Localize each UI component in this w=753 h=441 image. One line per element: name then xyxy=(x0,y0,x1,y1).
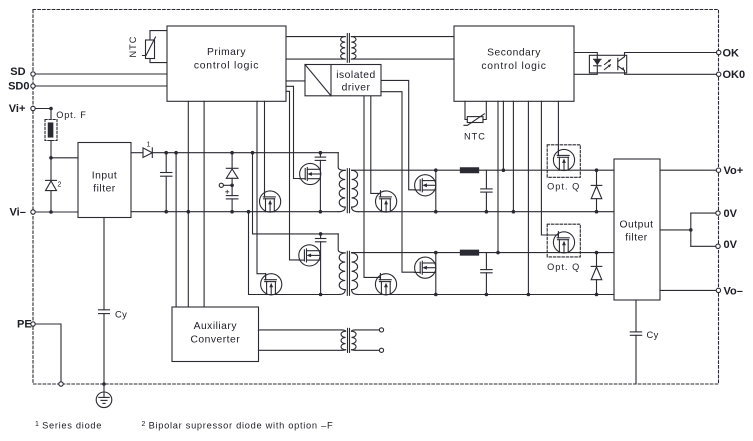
svg-text:Vo–: Vo– xyxy=(724,285,743,297)
transformer T2 secondary xyxy=(352,253,359,295)
svg-text:NTC: NTC xyxy=(464,132,486,142)
svg-text:isolated: isolated xyxy=(336,70,376,81)
svg-text:control logic: control logic xyxy=(481,61,546,72)
capacitor Cy input xyxy=(99,218,128,393)
option box Opt. Q upper xyxy=(547,145,580,192)
thermistor NTC primary xyxy=(128,31,167,63)
terminal Vi+ xyxy=(31,106,51,110)
terminal SD xyxy=(31,72,167,76)
thermistor NTC secondary xyxy=(464,101,486,141)
wire output Vo+ xyxy=(660,168,721,172)
wire gate drive Q1 xyxy=(286,86,300,178)
wire gate drive Q4 xyxy=(257,101,266,279)
transformer T2 primary xyxy=(338,234,345,295)
svg-text:Input: Input xyxy=(92,170,117,181)
transformer T1 primary xyxy=(338,153,345,212)
transistor Q1 xyxy=(299,163,320,184)
svg-text:driver: driver xyxy=(342,82,371,93)
svg-text:2: 2 xyxy=(58,182,62,189)
svg-text:filter: filter xyxy=(93,184,116,195)
junction dots lower bridge rails xyxy=(319,232,323,296)
wire secondary rail lower return xyxy=(359,294,614,296)
wire isolated driver output 2 xyxy=(371,96,381,197)
transformer T2 core xyxy=(347,251,349,295)
earth ground symbol xyxy=(96,392,112,408)
wire secondary rail upper return xyxy=(359,211,614,213)
svg-text:0V: 0V xyxy=(724,208,738,220)
wire aux feed 3 xyxy=(203,101,205,307)
diode D3 clamp xyxy=(226,153,238,186)
svg-text:Cy: Cy xyxy=(647,329,659,340)
wire Q8 drain source link xyxy=(435,253,437,295)
wire Vi+ to input filter xyxy=(51,157,78,159)
transistor Q6 sync xyxy=(375,274,396,295)
wire isolated driver output 4 xyxy=(381,92,415,273)
series diode D1 xyxy=(131,142,152,158)
capacitor C6 output lower xyxy=(481,253,492,295)
transistor Q3 xyxy=(260,191,281,212)
svg-text:OK: OK xyxy=(723,47,740,59)
diode D4 output upper xyxy=(591,170,602,212)
svg-text:OK0: OK0 xyxy=(723,69,746,81)
junction dots secondary upper channel xyxy=(434,168,598,213)
svg-text:Primary: Primary xyxy=(207,47,246,58)
node sense terminal xyxy=(219,183,232,187)
wire gate drive Q3 xyxy=(264,101,266,197)
svg-text:Vi+: Vi+ xyxy=(9,103,26,115)
terminal PE xyxy=(31,322,63,386)
transistor Q5 sync xyxy=(376,191,397,212)
diode D5 output lower xyxy=(591,253,602,295)
transistor Q8 rectifier xyxy=(414,257,435,278)
transistor Q10 option xyxy=(553,232,574,253)
wire aux output lower xyxy=(259,349,342,351)
wire gate drive Q10 xyxy=(541,101,558,238)
svg-text:Opt. Q: Opt. Q xyxy=(547,262,580,272)
suppressor diode D2 input xyxy=(46,158,62,212)
wire output Vo- xyxy=(660,288,721,292)
svg-text:Secondary: Secondary xyxy=(487,48,541,59)
transistor Q2 xyxy=(299,245,320,266)
wire secondary rail upper plus xyxy=(352,169,614,171)
svg-text:Vi–: Vi– xyxy=(10,207,26,219)
svg-text:Vo+: Vo+ xyxy=(724,165,744,177)
svg-text:0V: 0V xyxy=(724,239,738,251)
svg-text:control logic: control logic xyxy=(194,60,259,71)
block Auxiliary Converter xyxy=(172,307,259,362)
svg-text:PE: PE xyxy=(17,319,32,331)
transformer T1 secondary xyxy=(352,170,359,211)
block isolated driver U3 xyxy=(305,65,381,96)
transistor Q7 rectifier xyxy=(414,175,435,196)
junction dots top rail primary xyxy=(164,151,322,155)
wire aux feed 2 xyxy=(187,101,189,307)
svg-text:filter: filter xyxy=(625,233,648,244)
wire gate drive Q2 xyxy=(286,91,299,260)
block Output filter xyxy=(614,159,660,300)
wire branch top rail to lower bridge xyxy=(253,153,339,234)
capacitor C2 polarized xyxy=(226,185,238,211)
svg-text:NTC: NTC xyxy=(128,36,138,58)
terminal SD0 xyxy=(31,84,167,88)
svg-text:Opt. F: Opt. F xyxy=(56,110,86,120)
svg-text:1Series diode: 1Series diode xyxy=(35,421,102,431)
svg-text:SD: SD xyxy=(10,66,25,78)
transistor Q9 option xyxy=(553,149,574,170)
terminal Vi- xyxy=(31,210,78,214)
wire Q7 drain source link xyxy=(435,170,437,212)
transformer T1 core xyxy=(347,169,349,213)
capacitor C3 clamp upper xyxy=(315,153,325,212)
block Primary control logic xyxy=(167,26,286,101)
wire secondary rail lower plus xyxy=(352,252,614,254)
fuse Opt. F xyxy=(45,109,87,158)
wire secondary logic sense 1 xyxy=(497,101,499,252)
inductor L2 xyxy=(460,250,478,255)
wire secondary logic sense 2 xyxy=(502,101,504,170)
transistor Q4 xyxy=(261,274,282,295)
capacitor C5 output upper xyxy=(481,170,492,212)
wire branch mid rail to lower bridge return xyxy=(249,212,339,295)
wire secondary logic sense 3 xyxy=(512,101,514,211)
svg-text:Converter: Converter xyxy=(190,334,240,345)
junction dots input section xyxy=(49,107,692,386)
svg-text:2Bipolar supressor diode with: 2Bipolar supressor diode with option –F xyxy=(142,421,334,431)
wire primary logic to isolated driver xyxy=(286,80,305,82)
wire top rail primary xyxy=(152,152,338,154)
wire secondary logic sense 4 xyxy=(527,101,529,294)
block Secondary control logic xyxy=(454,26,574,101)
node aux terminal lower xyxy=(356,348,384,352)
svg-text:1: 1 xyxy=(147,142,151,149)
junction dots secondary lower channel xyxy=(434,251,598,297)
svg-text:Output: Output xyxy=(620,219,654,230)
junction dots mid rail primary xyxy=(164,210,322,214)
wire aux output upper xyxy=(259,329,342,331)
svg-text:Opt. Q: Opt. Q xyxy=(547,182,580,192)
wire isolated driver output 1 xyxy=(364,96,380,280)
wire gate drive Q9 xyxy=(557,101,559,155)
wire mid rail primary xyxy=(131,211,338,213)
svg-text:Auxiliary: Auxiliary xyxy=(194,321,238,332)
wire isolated driver output 3 xyxy=(381,80,415,189)
node aux terminal upper xyxy=(356,328,384,332)
transformer T3 aux xyxy=(341,328,356,352)
capacitor C4 clamp lower xyxy=(315,234,325,295)
transformer T0 signal xyxy=(286,34,454,63)
svg-text:Cy: Cy xyxy=(115,308,127,319)
optocoupler U4 xyxy=(574,50,721,76)
capacitor Cy output xyxy=(630,300,658,384)
enclosure dashed border xyxy=(33,10,719,385)
capacitor C1 input bulk xyxy=(161,153,172,212)
inductor L1 xyxy=(460,168,478,173)
option box Opt. Q lower xyxy=(547,224,580,272)
wire aux feed 1 xyxy=(175,153,177,307)
wire output 0V bracket xyxy=(660,211,720,249)
svg-text:SD0: SD0 xyxy=(8,81,29,93)
block Input filter xyxy=(78,143,131,218)
